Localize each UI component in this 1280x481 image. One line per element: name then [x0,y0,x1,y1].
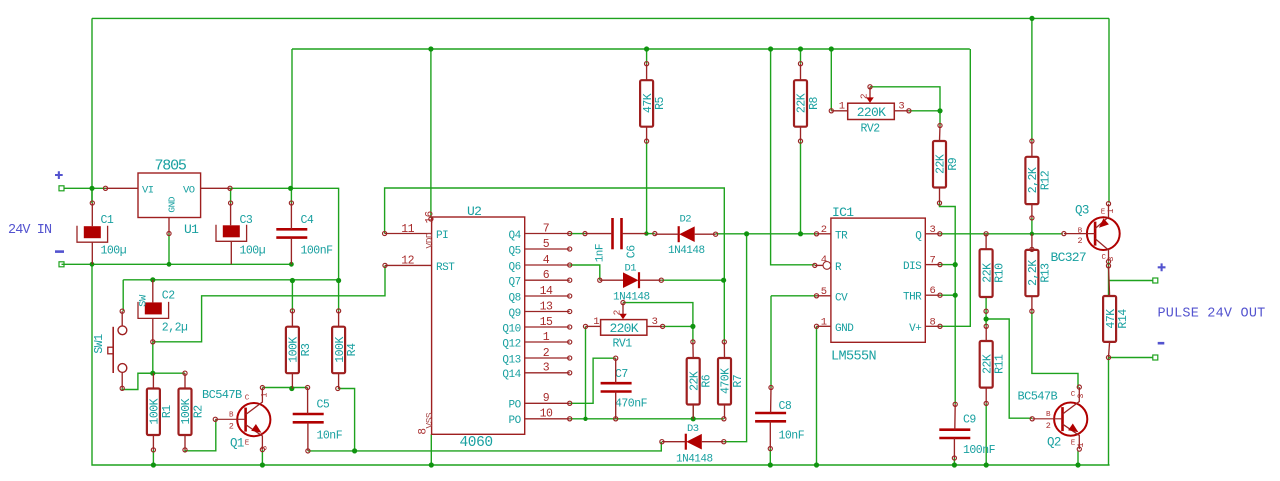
wire R7 feedback to pin11 [385,188,725,342]
svg-text:1N4148: 1N4148 [676,454,713,466]
svg-text:24V IN: 24V IN [8,223,52,238]
svg-text:R: R [835,262,842,274]
svg-text:5: 5 [543,238,550,251]
svg-text:2,2K: 2,2K [1027,167,1040,193]
pin 3 Q14 [525,372,570,374]
capacitor C3 [216,214,266,257]
svg-text:BC547B: BC547B [202,388,242,402]
junction R6 bottom row [691,416,696,421]
wire R1/R2 top row [138,372,185,374]
svg-text:R13: R13 [1039,263,1052,283]
svg-text:LM555N: LM555N [831,349,877,364]
svg-text:R11: R11 [994,354,1007,374]
junction C6 / R5 node [644,231,648,235]
wire Q row 555 output [940,233,1063,235]
terminal pulse out plus [1153,278,1158,283]
svg-text:Q13: Q13 [502,354,520,366]
wire R3 drop [291,281,293,311]
svg-text:8: 8 [930,316,936,328]
junction +5V bus / 555 reset riser [768,46,773,51]
svg-text:C2: C2 [162,290,175,303]
svg-text:6: 6 [543,269,550,282]
svg-text:C3: C3 [240,214,253,227]
pin 5 Q5 [525,248,570,250]
svg-text:C: C [245,395,250,403]
junction D1 cathode / R7 riser [721,278,726,283]
junction C1 minus rail [90,262,95,267]
svg-text:R10: R10 [994,263,1007,283]
svg-text:100K: 100K [180,398,193,424]
pin 1 Q12 [525,341,570,343]
svg-text:3: 3 [652,316,658,328]
resistor R11 pins [984,324,988,328]
wire C5 bottom row to D3 cathode [308,442,661,451]
wire THR stub [940,294,955,296]
junction C5 / R4 / D3 net [352,448,357,453]
trimmer RV2 220K [829,85,911,136]
svg-text:11: 11 [401,223,414,236]
resistor R3 [286,327,313,374]
resistor R9 [933,141,960,188]
svg-text:DIS: DIS [903,261,922,273]
resistor R14 pins [1106,264,1110,268]
svg-text:R6: R6 [701,374,714,387]
wire C3 drop [230,188,232,203]
junction R1 bottom ground [151,462,156,467]
svg-text:100µ: 100µ [240,245,266,258]
svg-text:100K: 100K [149,398,162,424]
svg-text:47K: 47K [1105,309,1118,329]
capacitor C5 [293,399,343,443]
wire C4 drop [290,188,292,203]
svg-text:1: 1 [593,316,599,328]
svg-text:100K: 100K [288,337,301,363]
pin 16 VDD [429,217,433,221]
wire VO to C4 node [230,188,339,280]
junction R12 / R13 / Q3 base row [1030,232,1034,236]
wire R9 bottom jog [940,203,956,404]
resistor R9 pins [938,123,942,127]
capacitor C4 [276,214,333,257]
wire RV2 pin3 to junction [909,110,940,112]
svg-text:1: 1 [1106,208,1116,213]
wire RV2 pin1 riser [830,49,832,111]
svg-text:Q5: Q5 [508,245,520,257]
svg-text:1N4148: 1N4148 [668,245,705,257]
pin 6 THR [925,294,940,296]
wire Q1 emitter drop [261,450,263,465]
junction VO / C4 node [288,186,293,191]
pin 1 GND [817,325,831,327]
resistor R5 [640,80,667,127]
svg-text:D2: D2 [680,214,692,226]
svg-text:C7: C7 [615,368,628,381]
wire 24V IN minus rail [62,263,293,265]
svg-text:Q: Q [915,230,922,242]
wire Q1 collector row [262,387,307,389]
wire C1 top [91,188,93,203]
svg-text:Q2: Q2 [1047,435,1061,449]
capacitor C7 [601,368,648,411]
junction RV1 pin1 / pin10 row [583,417,587,421]
wire 555 reset riser [771,49,815,265]
resistor R5 pins [645,62,649,66]
terminal 24V IN minus [59,262,64,267]
terminal pulse out minus [1153,355,1158,360]
svg-text:100K: 100K [334,337,347,363]
svg-text:470nF: 470nF [615,398,648,411]
svg-text:R4: R4 [346,343,359,356]
junction +5V bus / R5 [644,46,649,51]
label SW field of C2 [138,294,150,307]
resistor R8 [794,80,821,127]
svg-text:RV2: RV2 [861,123,881,136]
svg-text:THR: THR [903,292,922,304]
capacitor C4 pins [290,203,292,229]
svg-text:2: 2 [543,347,550,360]
svg-text:C6: C6 [626,245,639,258]
wire R12 stub top [1031,18,1033,141]
wire pin7 to C6 [570,233,585,235]
transistor Q3 BC327 [1051,202,1120,265]
svg-text:47K: 47K [642,93,655,113]
svg-text:VSS: VSS [424,412,435,428]
svg-text:220K: 220K [857,105,886,120]
wire R6 top [692,326,694,342]
wire 24V IN plus to VI [64,187,106,189]
wire C8 bottom [769,449,771,465]
transistor Q2 BC547B [1018,385,1088,451]
wire C2/R3/R4 row [123,279,338,281]
pin 9 PO [525,402,570,404]
svg-text:C9: C9 [963,414,976,427]
pin 5 CV [817,295,831,297]
svg-text:IC1: IC1 [832,205,854,220]
svg-text:5: 5 [821,286,827,298]
capacitor C6 [611,218,614,249]
svg-text:16: 16 [424,211,436,223]
svg-text:E: E [245,440,250,448]
wire pin4 jog to D1 [570,265,600,280]
wire R2 bottom to Q1 base [185,419,216,451]
svg-text:7: 7 [930,255,936,267]
diode D2 pins [653,232,657,236]
wire pin10 row to C7/R6/R7 bottoms [570,418,616,420]
svg-text:4060: 4060 [460,435,493,451]
wire R10/R11 junction to Q2 base [986,319,1032,418]
wire 7805 GND drop [168,234,170,265]
capacitor C5 pins [306,385,310,389]
svg-text:GND: GND [835,323,854,335]
svg-text:14: 14 [540,285,553,298]
junction THR node [953,293,958,298]
resistor R1 pins [152,373,154,388]
svg-text:22K: 22K [688,371,701,391]
capacitor C3 pins [230,203,232,225]
svg-text:C4: C4 [301,214,314,227]
svg-text:100nF: 100nF [963,444,996,457]
junction Q1 emitter ground [260,462,265,467]
svg-text:4: 4 [821,254,827,266]
wire C8 drop [770,296,772,388]
capacitor C2 pins [152,280,154,303]
svg-text:1nF: 1nF [595,244,607,262]
svg-text:VI: VI [142,185,154,197]
svg-text:22K: 22K [796,93,809,113]
pin 8 V+ [925,325,940,327]
svg-text:R3: R3 [300,343,313,356]
capacitor C8 pins [769,385,773,389]
resistor R3 pins [290,309,294,313]
diode D1 pins [598,278,602,282]
wire R4 drop [338,280,340,311]
capacitor C9 [939,414,995,458]
svg-text:Q8: Q8 [508,292,520,304]
pin 10 PO [525,418,570,420]
transistor Q1 BC547B [202,386,270,452]
svg-text:R14: R14 [1117,309,1130,329]
svg-text:470K: 470K [720,368,733,394]
svg-text:B: B [229,412,234,420]
svg-text:BC327: BC327 [1051,250,1087,265]
svg-text:2: 2 [821,224,827,236]
svg-text:PULSE 24V OUT: PULSE 24V OUT [1158,307,1266,322]
svg-text:12: 12 [401,255,414,268]
svg-text:22K: 22K [981,354,994,374]
pin 12 RST [385,264,432,266]
wire R11 bottom drop [985,403,987,465]
wire R4 bottom jog to C5/D3 net [338,389,355,451]
svg-text:RV1: RV1 [613,338,633,351]
wire RV1 pin1 drop to pin10 row [585,326,587,418]
capacitor C7 pins [614,356,618,360]
wire DIS stub [940,264,955,266]
diode D3 1N4148 [676,423,713,466]
resistor R7 pins [722,340,726,344]
wire R10 pullup drop [985,297,987,326]
junction 24V input plus node [89,186,94,191]
svg-text:100µ: 100µ [101,245,127,258]
svg-text:R8: R8 [808,96,821,109]
svg-text:1: 1 [543,331,550,344]
capacitor C6 pins [583,232,587,236]
junction D2 anode / D3 riser [744,231,749,236]
diode D1 1N4148 [613,263,650,304]
svg-text:10nF: 10nF [317,430,343,443]
wire left border lower segment [92,264,1110,465]
wire D2 anode to TR [716,233,817,235]
label minus output [1158,342,1165,345]
wire R13 bottom jog to Q2 collector [1032,311,1078,388]
junction RV1 pins 2-3 [690,324,695,329]
junction RV2 pins 2-3 [937,108,942,113]
wire +5V bus [292,48,970,50]
svg-text:1: 1 [839,100,845,112]
resistor R12 pins [1030,139,1034,143]
junction R3 bottom / Q1 collector [289,386,294,391]
resistor R6 pins [691,340,695,344]
terminal 24V IN plus [59,186,64,191]
svg-text:1: 1 [1076,442,1086,447]
wire C7 bottom row [616,418,724,420]
svg-text:4: 4 [543,254,550,267]
svg-text:Q3: Q3 [1075,204,1089,218]
junction +5V bus / U2 VDD riser [428,46,433,51]
wire R1 bottom [152,450,154,465]
svg-text:GND: GND [167,196,178,212]
svg-text:Q9: Q9 [508,308,520,320]
svg-text:TR: TR [835,230,848,242]
junction C9 ground [952,462,957,467]
svg-text:BC547B: BC547B [1018,390,1058,404]
wire U2 VDD riser [430,49,432,218]
pin 11 PI [385,233,432,235]
wire R8 stub top [800,49,802,64]
resistor R14 [1103,296,1130,342]
svg-text:R9: R9 [947,157,960,170]
svg-text:PO: PO [508,415,521,427]
pin 13 Q9 [525,311,570,313]
junction R3 top row [290,278,295,283]
resistor R10 pins [984,232,988,236]
svg-text:2: 2 [1046,421,1051,431]
ic IC1 LM555N body [831,205,925,364]
regulator U1 7805 [103,158,232,238]
wire RV1 pin3 to junction [663,325,693,327]
svg-text:CV: CV [835,292,848,304]
diode D3 pins [660,440,664,444]
svg-text:D1: D1 [625,263,637,275]
wire left border from 24V rail down to ground rail [91,18,93,203]
svg-text:6: 6 [930,285,936,297]
junction DIS node [953,262,958,267]
label plus input [55,171,63,179]
svg-text:V+: V+ [909,323,921,335]
wire pin9 jog to C7 top [570,358,616,403]
svg-text:2,2K: 2,2K [1027,260,1040,286]
wire SW1 bottom jog [122,373,153,389]
pin 8 VSS [418,428,430,434]
wire C2 bottom to RST row [152,342,154,373]
junction C8 ground [768,462,773,467]
wire 24V rail top [92,17,1109,19]
junction C2 top row [150,277,155,282]
wire RV1 wiper jog [623,303,693,327]
svg-text:Q1: Q1 [230,437,244,451]
wire RV2 wiper jog [870,87,940,111]
svg-text:E: E [1101,209,1106,217]
svg-text:13: 13 [540,300,553,313]
junction C4 minus rail [289,262,294,267]
svg-text:Q7: Q7 [508,277,520,289]
svg-text:22K: 22K [981,263,994,283]
junction R11 ground [984,462,989,467]
svg-text:2: 2 [859,93,870,99]
svg-text:R5: R5 [654,96,667,109]
pin 14 Q8 [525,295,570,297]
svg-text:22K: 22K [935,154,948,174]
pin 2 Q13 [525,357,570,359]
junction 7805 GND / minus rail [167,262,172,267]
pin 7 Q4 [525,233,570,235]
wire SW1 top feed [122,280,124,311]
svg-text:10nF: 10nF [779,430,805,443]
resistor R8 pins [798,62,802,66]
wire C2 bottom jog to pin12 [153,265,385,341]
svg-text:Q12: Q12 [502,338,520,350]
capacitor C9 pins [953,402,957,406]
svg-text:R1: R1 [161,405,174,418]
wire pulse out plus [1109,280,1153,282]
resistor R2 [179,389,206,436]
wire C9 bottom [953,458,955,465]
wire RV2 junction to R9 [939,111,941,126]
svg-text:C1: C1 [101,214,114,227]
svg-text:1N4148: 1N4148 [613,292,650,304]
junction C2 bottom / R1 row [150,371,155,376]
trimmer RV1 220K [583,301,664,351]
svg-text:B: B [1046,411,1051,419]
pin 6 Q7 [525,279,570,281]
svg-text:15: 15 [540,316,553,329]
resistor R7 [718,358,745,405]
resistor R13 [1025,250,1052,296]
svg-text:7805: 7805 [155,158,187,175]
svg-text:Q4: Q4 [508,230,521,242]
capacitor C1 pins [91,203,93,226]
resistor R4 [332,327,359,374]
svg-text:9: 9 [543,392,550,405]
svg-text:3: 3 [1106,256,1116,261]
junction Q2 emitter ground [1075,462,1080,467]
svg-text:100nF: 100nF [301,245,334,258]
wire R5 stub top [646,49,648,64]
resistor R13 pins [1031,234,1033,250]
junction R8 / TR row [798,231,803,236]
svg-text:Q6: Q6 [508,261,520,273]
svg-text:220K: 220K [609,321,638,336]
svg-text:Q10: Q10 [502,323,520,335]
pin 3 Q [925,233,940,235]
svg-text:3: 3 [543,362,550,375]
pin 2 TR [817,233,831,235]
svg-text:2: 2 [1077,236,1082,246]
label plus output [1158,263,1166,271]
svg-text:VO: VO [183,185,195,197]
svg-text:VDD: VDD [424,232,435,248]
wire +5V bus riser from 7805 output [291,49,293,188]
wire 555 GND drop [816,326,818,465]
resistor R2 pins [183,371,187,375]
resistor R1 [147,389,174,436]
svg-text:3: 3 [1076,393,1086,398]
junction R4 top row [336,278,341,283]
junction 24V rail / R12 [1029,16,1034,21]
svg-text:D3: D3 [687,423,699,435]
svg-text:Q14: Q14 [502,369,521,381]
wire C6/D2 node [646,233,654,235]
label minus input [55,250,64,253]
junction R10 / R11 / Q2 base [984,316,989,321]
wire V+ riser [940,49,970,326]
wire C8 top riser [771,295,817,297]
pin 4 Q6 [525,264,570,266]
svg-text:RST: RST [436,262,455,274]
svg-text:3: 3 [930,224,936,236]
wire R6 bottom stub [692,405,694,419]
junction 555 GND ground [814,462,819,467]
resistor R6 [687,358,714,405]
